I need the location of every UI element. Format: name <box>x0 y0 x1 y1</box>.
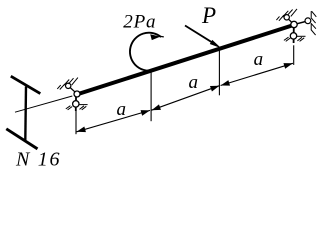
right lower anchor ground line <box>297 35 306 37</box>
left support: main pin <box>74 91 80 97</box>
left lower anchor ground line <box>79 104 87 106</box>
dim2 right arrowhead <box>210 86 219 92</box>
dim1 right arrowhead <box>141 110 150 116</box>
extension line 2 <box>150 71 152 121</box>
extension line 1 (below left support) <box>75 111 77 135</box>
left support upper anchor circle <box>66 83 71 88</box>
right lower anchor hatching <box>284 37 304 41</box>
extension line 3 <box>218 49 220 95</box>
svg-text:2Pa: 2Pa <box>123 12 156 33</box>
dimension line 1 <box>77 110 151 131</box>
left upper anchor hatching <box>57 78 78 90</box>
left support lower anchor circle <box>73 101 79 107</box>
extension line 4 (below right support) <box>293 45 295 65</box>
left support rod down <box>75 97 77 101</box>
dim3 right arrowhead <box>283 63 292 69</box>
right lower anchor stub <box>293 39 295 43</box>
force P arrow line <box>185 26 216 45</box>
svg-text:a: a <box>117 99 127 120</box>
right support rod down <box>293 28 295 33</box>
left lower anchor hatching <box>66 106 87 110</box>
right support rod to right anchor <box>297 22 305 24</box>
moment arrowhead <box>150 34 160 40</box>
leader line to section <box>15 96 72 112</box>
svg-text:N 16: N 16 <box>15 148 61 170</box>
force P arrowhead <box>210 40 222 48</box>
left lower anchor stub <box>75 107 77 111</box>
moment arrow tail <box>160 35 164 38</box>
dimension line 3 <box>221 63 293 85</box>
svg-text:a: a <box>254 49 264 70</box>
beam AB (thick inclined member) <box>77 25 294 95</box>
I-beam web <box>24 87 27 142</box>
right support: main pin <box>291 21 297 27</box>
right upper anchor hatching <box>276 9 297 21</box>
I-beam bottom flange <box>6 129 37 149</box>
dimension line 2 <box>152 86 220 111</box>
left support rod to upper anchor <box>70 88 75 92</box>
dim3 left arrowhead <box>221 80 230 86</box>
right anchor wall and hatching <box>311 11 316 35</box>
svg-text:a: a <box>189 72 199 93</box>
svg-text:P: P <box>201 3 216 28</box>
dim2 left arrowhead <box>152 104 161 110</box>
right upper anchor circle <box>284 15 289 20</box>
I-beam cross-section: top flange <box>11 76 41 93</box>
moment arc 2Pa <box>130 33 161 71</box>
right support rod to upper anchor <box>289 19 292 22</box>
dim1 left arrowhead <box>77 127 86 133</box>
right lower anchor circle <box>290 33 296 39</box>
right anchor circle <box>305 18 311 24</box>
